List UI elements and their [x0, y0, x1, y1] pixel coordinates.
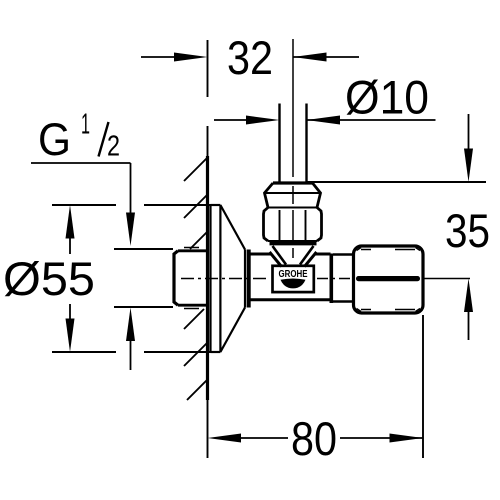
- svg-text:35: 35: [445, 204, 490, 257]
- svg-text:32: 32: [227, 31, 273, 84]
- svg-text:2: 2: [107, 131, 120, 163]
- dimension O55 arrow down: [66, 304, 75, 352]
- wall line: [206, 156, 209, 400]
- valve body: [250, 254, 331, 300]
- G1/2 arrow up at thread bottom: [126, 308, 135, 371]
- svg-text:GROHE: GROHE: [279, 269, 308, 280]
- dimension O10 line: [214, 116, 436, 125]
- svg-text:G: G: [38, 114, 71, 165]
- svg-text:Ø55: Ø55: [3, 252, 95, 305]
- rosette: [211, 205, 246, 352]
- dimension O55 arrow up: [66, 205, 75, 254]
- compression nut cap: [265, 183, 321, 208]
- compression nut hex: [264, 208, 322, 242]
- extension line wall upper-middle: [207, 126, 209, 156]
- axis centerline horizontal: [181, 278, 470, 280]
- handle knob: [354, 246, 424, 313]
- thread bottom extension: [114, 306, 173, 308]
- GROHE laurel emblem: [281, 279, 306, 289]
- dimension 35 arrow down: [464, 114, 473, 182]
- bonnet neck: [333, 255, 353, 302]
- dimension 32 line: [141, 53, 359, 62]
- extension line wall top (for dim 32): [207, 40, 209, 97]
- G1/2 leader line: [31, 163, 135, 246]
- funnel transition to body: [270, 246, 317, 267]
- bonnet flange: [330, 254, 334, 304]
- extension line wall bottom (for dim 80): [207, 400, 209, 458]
- svg-text:1: 1: [81, 109, 90, 141]
- svg-text:Ø10: Ø10: [345, 71, 429, 124]
- dimension O55 extension lines: [52, 205, 211, 352]
- dimension 80 line: [208, 315, 424, 458]
- handle grip groove: [356, 276, 420, 281]
- rosette front rim: [247, 250, 251, 308]
- pipe (vertical outlet pipe): [280, 104, 307, 183]
- dim text G 1/2: [38, 109, 120, 166]
- GROHE label box: [273, 266, 314, 292]
- dimension 35 arrow up: [464, 279, 473, 341]
- thread top extension: [114, 248, 173, 250]
- nut lower collar: [270, 241, 317, 246]
- svg-text:80: 80: [291, 412, 337, 465]
- dimension 35 extension top: [307, 181, 487, 183]
- wall hatching: [184, 158, 207, 400]
- pipe centerline vertical: [292, 39, 294, 258]
- inlet thread G1/2: [174, 248, 207, 309]
